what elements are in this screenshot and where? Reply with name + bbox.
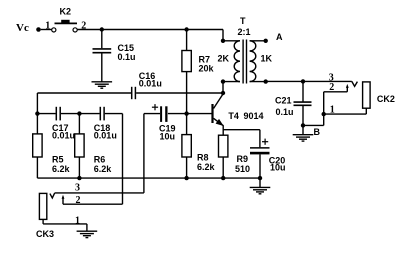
svg-text:510: 510 xyxy=(235,164,250,174)
svg-text:A: A xyxy=(276,32,283,42)
svg-text:CK2: CK2 xyxy=(377,94,395,104)
svg-text:1K: 1K xyxy=(261,53,273,63)
svg-text:0.01u: 0.01u xyxy=(94,131,117,141)
svg-text:R9: R9 xyxy=(237,154,249,164)
svg-text:T4: T4 xyxy=(228,111,239,121)
svg-text:2: 2 xyxy=(329,82,334,93)
svg-text:CK3: CK3 xyxy=(36,229,54,239)
svg-text:Vc: Vc xyxy=(16,22,29,34)
svg-text:K2: K2 xyxy=(60,7,72,17)
svg-text:6.2k: 6.2k xyxy=(52,164,71,174)
svg-text:6.2k: 6.2k xyxy=(94,164,113,174)
svg-text:0.1u: 0.1u xyxy=(276,107,294,117)
svg-text:1: 1 xyxy=(75,215,80,226)
svg-text:1: 1 xyxy=(330,104,335,115)
svg-text:B: B xyxy=(314,127,321,137)
svg-text:2:1: 2:1 xyxy=(238,27,251,37)
svg-text:T: T xyxy=(240,16,246,26)
svg-text:3: 3 xyxy=(75,183,80,194)
svg-text:2K: 2K xyxy=(218,53,230,63)
svg-text:0.01u: 0.01u xyxy=(139,79,162,89)
svg-text:6.2k: 6.2k xyxy=(197,162,216,172)
svg-text:20k: 20k xyxy=(199,64,215,74)
svg-text:2: 2 xyxy=(81,20,86,31)
svg-text:9014: 9014 xyxy=(244,111,264,121)
svg-text:0.01u: 0.01u xyxy=(52,131,75,141)
svg-text:2: 2 xyxy=(76,195,81,206)
svg-text:10u: 10u xyxy=(160,132,176,142)
svg-text:1: 1 xyxy=(45,20,50,31)
svg-text:C21: C21 xyxy=(275,96,292,106)
svg-text:10u: 10u xyxy=(270,163,286,173)
svg-text:0.1u: 0.1u xyxy=(118,52,136,62)
